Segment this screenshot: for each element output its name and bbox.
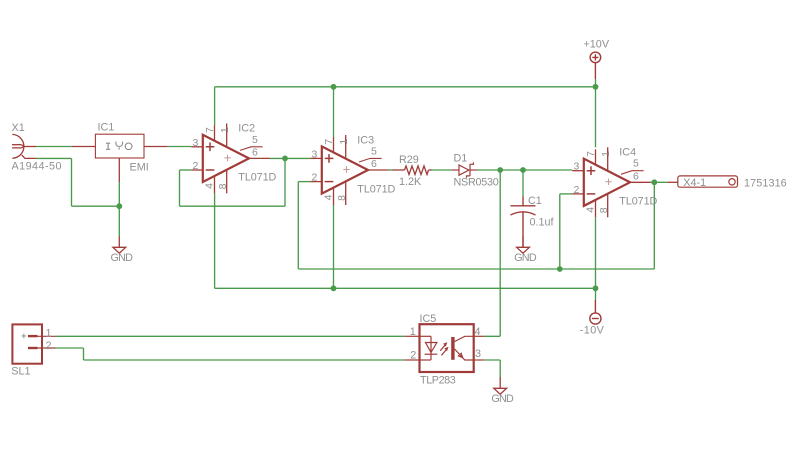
svg-text:SL1: SL1 <box>11 365 30 377</box>
svg-text:IC1: IC1 <box>98 121 115 133</box>
svg-text:IC2: IC2 <box>238 123 255 135</box>
svg-text:D1: D1 <box>454 152 468 164</box>
svg-text:0.1uf: 0.1uf <box>530 216 555 228</box>
svg-text:4: 4 <box>475 326 481 338</box>
svg-text:IC3: IC3 <box>357 134 374 146</box>
svg-text:1: 1 <box>410 326 416 338</box>
svg-text:C1: C1 <box>528 195 542 207</box>
svg-text:1751316: 1751316 <box>744 178 787 190</box>
svg-text:IC4: IC4 <box>619 147 636 159</box>
svg-text:X4-1: X4-1 <box>683 177 706 189</box>
svg-text:EMI: EMI <box>130 162 149 174</box>
svg-text:R29: R29 <box>399 154 419 166</box>
svg-text:3: 3 <box>475 348 481 360</box>
svg-text:TL071D: TL071D <box>619 196 657 208</box>
svg-text:2: 2 <box>410 349 416 361</box>
svg-text:A1944-50: A1944-50 <box>12 161 62 173</box>
svg-text:TLP283: TLP283 <box>420 374 456 386</box>
svg-text:+10V: +10V <box>584 38 610 50</box>
svg-text:2: 2 <box>46 340 52 352</box>
svg-text:1.2K: 1.2K <box>399 176 422 188</box>
svg-text:TL071D: TL071D <box>357 183 395 195</box>
svg-text:NSR0530: NSR0530 <box>454 177 499 189</box>
svg-text:TL071D: TL071D <box>238 172 276 184</box>
svg-text:-10V: -10V <box>580 324 605 336</box>
svg-text:IC5: IC5 <box>420 313 437 325</box>
svg-text:1: 1 <box>46 328 52 340</box>
svg-text:X1: X1 <box>12 122 25 134</box>
